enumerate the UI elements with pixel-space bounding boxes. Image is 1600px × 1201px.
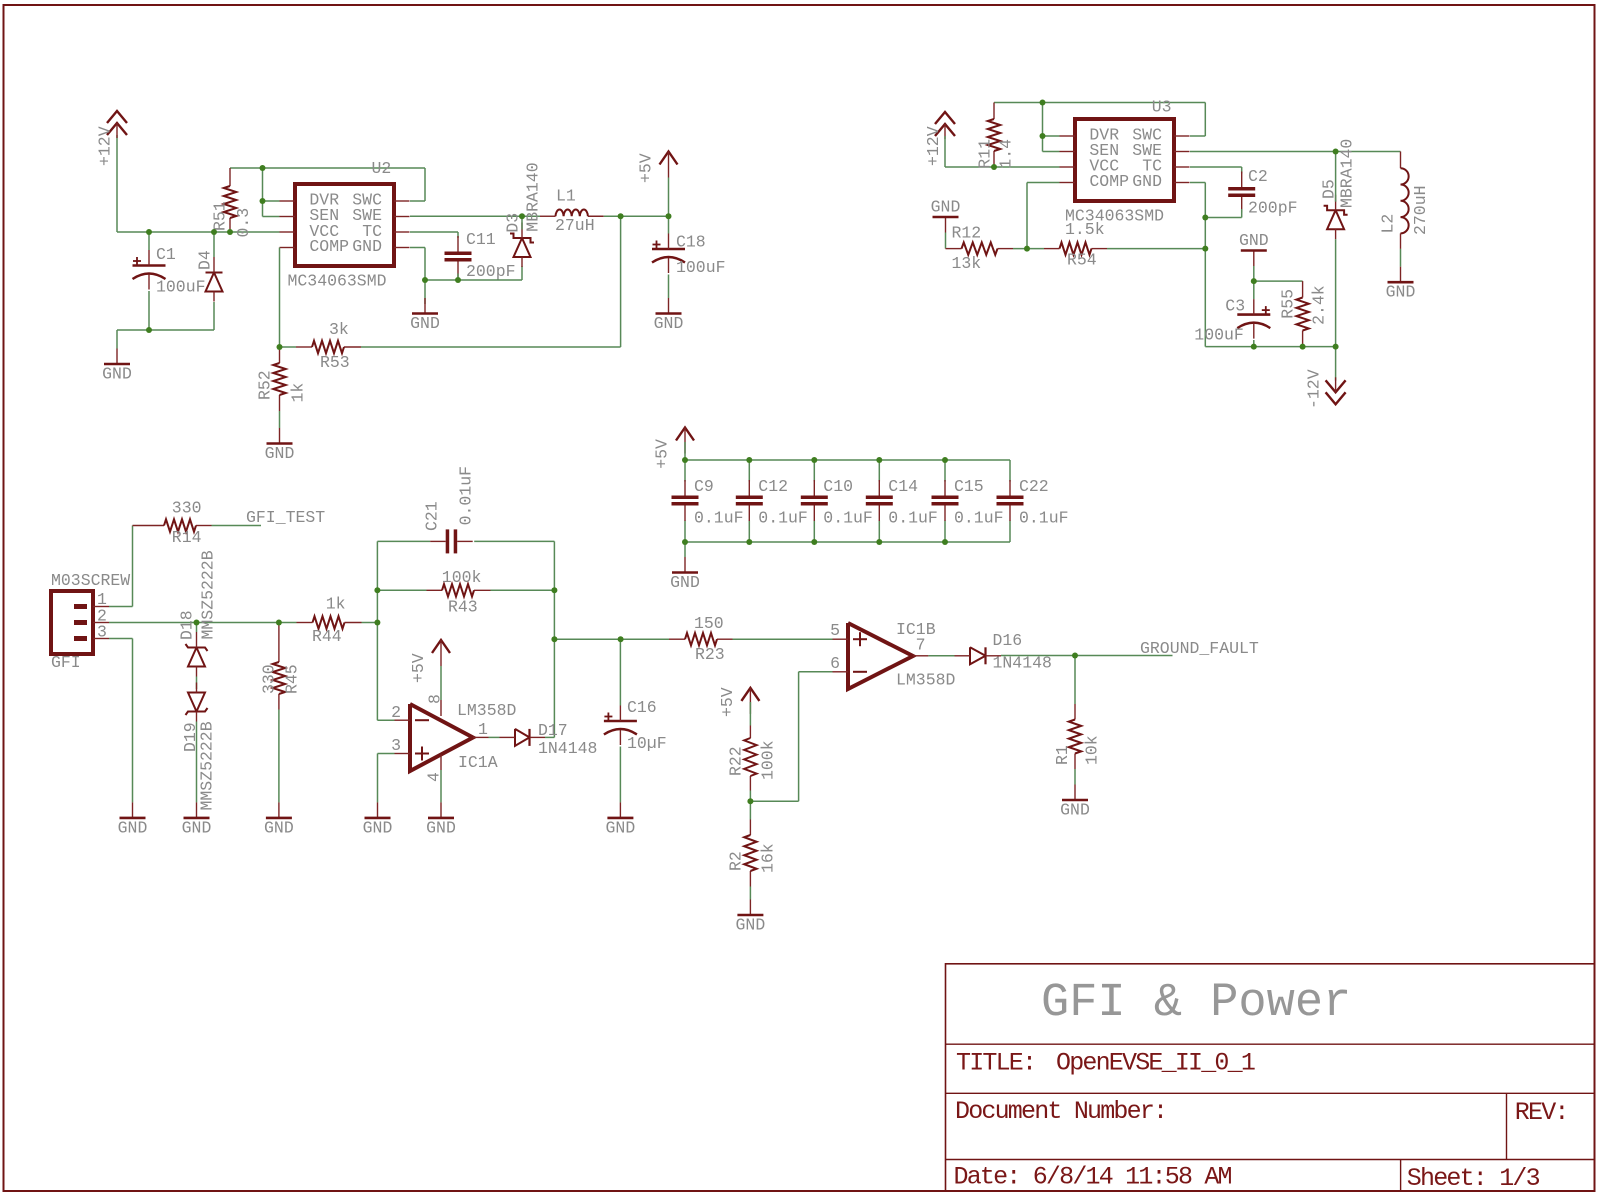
resistor R2 — [744, 820, 756, 887]
svg-text:LM358D: LM358D — [896, 671, 956, 690]
svg-text:0.01uF: 0.01uF — [457, 466, 476, 525]
R1 top wire — [1074, 656, 1076, 705]
resistor R11 — [988, 103, 1000, 168]
svg-text:C2: C2 — [1248, 167, 1268, 186]
R52 to GND wire — [279, 411, 281, 428]
svg-text:5: 5 — [830, 621, 840, 640]
C9 riser wires — [684, 460, 686, 482]
diode D18 — [186, 632, 208, 677]
svg-text:+5V: +5V — [409, 653, 428, 683]
R23 to pin5 wire — [733, 638, 833, 640]
svg-text:TITLE:: TITLE: — [956, 1049, 1035, 1078]
resistor R1 — [1069, 704, 1081, 769]
svg-text:+5V: +5V — [653, 439, 672, 469]
SWC corner wire — [424, 168, 426, 201]
node A vertical wire — [376, 541, 378, 720]
IC U2 box — [295, 184, 394, 266]
svg-text:GND: GND — [931, 198, 961, 217]
svg-text:COMP: COMP — [309, 237, 349, 256]
svg-text:0.1uF: 0.1uF — [694, 509, 744, 528]
svg-text:GND: GND — [1386, 283, 1416, 302]
U2 right pin stubs — [394, 200, 410, 202]
U2 left pin stubs — [280, 200, 296, 202]
C1 wires — [148, 232, 150, 250]
R54 right net wire — [1107, 248, 1205, 250]
svg-text:MBRA140: MBRA140 — [1338, 139, 1357, 208]
D19 wires — [196, 722, 198, 803]
capacitor C22 — [997, 480, 1024, 521]
ground GND under caps — [670, 557, 700, 592]
ground GND under U2 — [410, 298, 440, 333]
SWE net wire — [410, 215, 540, 217]
pin3 net wire — [109, 638, 133, 640]
svg-text:C10: C10 — [823, 477, 853, 496]
svg-text:10µF: 10µF — [627, 734, 667, 753]
+12V right net wire — [944, 136, 946, 167]
COMP net wire — [279, 248, 281, 348]
U3 left pin stubs — [1060, 135, 1076, 137]
op-amp IC1B — [848, 623, 913, 689]
svg-text:R12: R12 — [952, 223, 982, 242]
svg-text:3k: 3k — [329, 320, 349, 339]
ground GND under L2 — [1386, 267, 1416, 302]
svg-text:R14: R14 — [172, 528, 202, 547]
capacitor C14 — [866, 480, 893, 521]
U3 top net wire — [994, 102, 1205, 104]
C12 riser wires — [748, 460, 750, 482]
diode D16 — [955, 647, 1002, 664]
C16 drop wire — [619, 639, 621, 705]
R43 wires — [377, 589, 426, 591]
IC1B output wire — [928, 655, 954, 657]
R2 top wire — [749, 801, 751, 819]
+5V supply P+5V (R22) — [741, 688, 759, 714]
svg-text:C3: C3 — [1225, 296, 1245, 315]
caps gnd rail wire — [685, 541, 1010, 543]
diode D4 — [206, 257, 223, 302]
IC1A minus input wire — [377, 719, 394, 721]
svg-text:C16: C16 — [627, 698, 657, 717]
svg-text:0.1uF: 0.1uF — [888, 509, 938, 528]
svg-text:C21: C21 — [423, 501, 442, 531]
ground GND under R52 — [265, 428, 295, 463]
svg-text:0.1uF: 0.1uF — [1019, 509, 1069, 528]
ground GND for IC1A plus — [363, 802, 393, 837]
svg-text:MMSZ5222B: MMSZ5222B — [199, 550, 218, 639]
svg-text:+12V: +12V — [924, 126, 943, 166]
capacitor C12 — [736, 480, 763, 521]
svg-text:U2: U2 — [372, 159, 392, 178]
TC right net wire — [1190, 166, 1242, 168]
svg-text:R53: R53 — [320, 353, 350, 372]
C18 wires — [668, 216, 670, 233]
+5V supply P+5V (U2 out) — [660, 152, 678, 178]
caps +5V rail wire — [684, 442, 686, 460]
ground GND under D19 — [182, 802, 212, 837]
svg-text:L1: L1 — [556, 187, 576, 206]
C10 riser wires — [813, 460, 815, 482]
IC1A pin stubs — [395, 719, 411, 721]
svg-text:GROUND_FAULT: GROUND_FAULT — [1140, 639, 1259, 658]
D3 wires — [521, 216, 523, 229]
U2 GND pin wire — [410, 247, 425, 249]
diode D17 — [500, 729, 546, 746]
svg-text:GND: GND — [352, 237, 382, 256]
svg-text:1N4148: 1N4148 — [538, 739, 597, 758]
C15 riser wires — [944, 460, 946, 482]
svg-text:MMSZ5222B: MMSZ5222B — [198, 721, 217, 810]
svg-text:100uF: 100uF — [156, 277, 206, 296]
SWE right net wire — [1190, 151, 1401, 153]
diode D3 — [510, 223, 534, 268]
GFI_TEST net wire — [212, 525, 262, 527]
svg-text:C11: C11 — [466, 230, 496, 249]
svg-text:COMP: COMP — [1089, 172, 1129, 191]
svg-text:R11: R11 — [976, 139, 995, 169]
svg-text:R23: R23 — [695, 645, 725, 664]
svg-text:+5V: +5V — [637, 153, 656, 183]
svg-text:R51: R51 — [211, 201, 230, 231]
svg-text:330: 330 — [172, 499, 202, 518]
svg-text:1.4: 1.4 — [997, 139, 1016, 169]
svg-text:R52: R52 — [256, 370, 275, 400]
svg-text:GND: GND — [410, 314, 440, 333]
GND net wire — [425, 279, 522, 281]
svg-text:GND: GND — [182, 818, 212, 837]
svg-text:330: 330 — [260, 664, 279, 694]
inductor L1 — [540, 215, 556, 217]
svg-text:C18: C18 — [676, 232, 706, 251]
svg-text:LM358D: LM358D — [457, 701, 517, 720]
svg-text:D5: D5 — [1319, 179, 1338, 199]
-12V rail wire — [1205, 346, 1335, 348]
svg-text:100uF: 100uF — [676, 258, 726, 277]
svg-text:R45: R45 — [283, 664, 302, 694]
svg-text:C1: C1 — [156, 245, 176, 264]
svg-text:GND: GND — [426, 818, 456, 837]
svg-text:10k: 10k — [1083, 735, 1102, 765]
svg-text:200pF: 200pF — [1248, 199, 1298, 218]
C21 right net wire — [474, 540, 554, 542]
R2 gnd wire — [749, 887, 751, 900]
svg-text:1: 1 — [478, 720, 488, 739]
svg-text:D16: D16 — [993, 631, 1023, 650]
svg-text:GND: GND — [118, 818, 148, 837]
capacitor C15 — [932, 480, 959, 521]
C16 gnd wire — [619, 747, 621, 803]
IC1B pin stubs — [833, 638, 849, 640]
feedback net wire — [280, 346, 297, 348]
svg-text:150: 150 — [694, 614, 724, 633]
D18 wires — [196, 623, 198, 633]
IC1A output wire — [489, 736, 500, 738]
IC1B minus wire — [799, 671, 833, 673]
svg-text:3: 3 — [97, 623, 107, 642]
C3 wires — [1253, 281, 1255, 299]
svg-text:GND: GND — [1239, 231, 1269, 250]
ground GND pin3 — [118, 802, 148, 837]
diode D5 — [1324, 195, 1348, 240]
R12-R54 net wire — [1013, 248, 1044, 250]
svg-text:R22: R22 — [727, 746, 746, 776]
svg-text:0.1uF: 0.1uF — [758, 509, 808, 528]
ground GND under C1 — [102, 349, 132, 384]
connector J-GFI box — [51, 591, 93, 654]
svg-text:OpenEVSE_II_0_1: OpenEVSE_II_0_1 — [1056, 1049, 1255, 1078]
capacitor C9 — [672, 480, 699, 521]
svg-text:U3: U3 — [1152, 97, 1172, 116]
svg-text:Date: 6/8/14 11:58 AM: Date: 6/8/14 11:58 AM — [954, 1163, 1232, 1192]
R23 node row wire — [554, 638, 669, 640]
resistor R53 — [296, 341, 361, 353]
diode D19 — [186, 683, 208, 722]
+5V supply P+5V (caps row) — [676, 428, 694, 454]
svg-text:M03SCREW: M03SCREW — [51, 571, 130, 590]
feedback right vertical wire — [553, 541, 555, 737]
svg-text:IC1B: IC1B — [896, 620, 936, 639]
svg-text:3: 3 — [391, 736, 401, 755]
svg-text:C9: C9 — [694, 477, 714, 496]
capacitor C1 — [133, 250, 166, 290]
ground GND above C3 — [1239, 231, 1269, 266]
connector pin bars — [74, 604, 87, 609]
svg-text:GFI_TEST: GFI_TEST — [246, 508, 325, 527]
C14 riser wires — [878, 460, 880, 482]
ground GND under R2 — [736, 900, 766, 935]
+12V supply P+12V (left) — [107, 111, 127, 138]
capacitor C21 — [430, 529, 473, 553]
ground GND under R1 — [1060, 785, 1090, 820]
svg-text:IC1A: IC1A — [458, 753, 498, 772]
svg-text:R1: R1 — [1053, 745, 1072, 765]
svg-text:13k: 13k — [952, 254, 982, 273]
svg-text:1.5k: 1.5k — [1065, 220, 1105, 239]
pin2 net wire — [109, 622, 297, 624]
resistor R52 — [273, 347, 285, 411]
svg-text:1N4148: 1N4148 — [993, 654, 1052, 673]
op-amp IC1A — [410, 704, 473, 771]
resistor R51 — [224, 168, 236, 232]
ground GND pin4 — [426, 802, 456, 837]
resistor R14 — [133, 519, 212, 531]
COMP right net wire — [1027, 182, 1060, 184]
svg-text:MC34063SMD: MC34063SMD — [288, 272, 387, 291]
D17 cathode wire — [545, 736, 554, 738]
R12 gnd wire — [945, 233, 947, 249]
svg-text:8: 8 — [426, 694, 445, 704]
svg-text:R2: R2 — [727, 851, 746, 871]
svg-text:+12V: +12V — [96, 126, 115, 166]
R22 bottom wire — [749, 791, 751, 802]
svg-text:R44: R44 — [312, 627, 342, 646]
IC1A pin8 wire — [440, 666, 442, 700]
C2 bottom wire — [1241, 209, 1243, 218]
svg-text:R43: R43 — [448, 598, 478, 617]
svg-text:C12: C12 — [758, 477, 788, 496]
svg-text:270uH: 270uH — [1411, 185, 1430, 235]
resistor R54 — [1044, 242, 1107, 254]
svg-text:GND: GND — [1060, 801, 1090, 820]
U3 right pin stubs — [1174, 135, 1190, 137]
svg-text:1k: 1k — [289, 383, 308, 403]
IC1A pin4 wire — [440, 755, 442, 771]
svg-text:REV:: REV: — [1515, 1098, 1568, 1127]
C11 bottom wire — [457, 274, 459, 281]
svg-text:R55: R55 — [1279, 289, 1298, 319]
TC net wire — [410, 231, 458, 233]
svg-text:C15: C15 — [954, 477, 984, 496]
+5V wire (U2 out) — [668, 178, 670, 217]
resistor R43 — [427, 584, 491, 596]
U2 top net wire — [230, 167, 425, 169]
svg-text:D4: D4 — [196, 250, 215, 270]
svg-text:Document Number:: Document Number: — [955, 1097, 1166, 1126]
U3 GND pin net wire — [1190, 182, 1205, 184]
-12V net wire — [1335, 347, 1337, 381]
capacitor C18 — [652, 234, 685, 274]
C1 bottom net wire — [117, 329, 214, 331]
L1 output net wire — [604, 215, 669, 217]
svg-text:1k: 1k — [326, 595, 346, 614]
capacitor C3 — [1237, 299, 1270, 339]
svg-text:2.4k: 2.4k — [1310, 285, 1329, 325]
svg-text:R54: R54 — [1067, 250, 1097, 269]
+12V net wire — [116, 135, 118, 232]
U3 SWC corner wire — [1204, 103, 1206, 137]
svg-text:100k: 100k — [759, 740, 778, 780]
svg-text:GFI: GFI — [51, 653, 81, 672]
GROUND_FAULT net wire — [1001, 655, 1173, 657]
C21 net wire — [377, 540, 430, 542]
-12V supply P-12V — [1326, 377, 1346, 404]
svg-text:GND: GND — [363, 818, 393, 837]
connector pin stubs — [93, 606, 109, 608]
IC U3 box — [1075, 119, 1174, 201]
L2 gnd wire — [1400, 249, 1402, 267]
svg-text:GND: GND — [606, 818, 636, 837]
resistor R23 — [669, 633, 733, 645]
svg-text:Sheet: 1/3: Sheet: 1/3 — [1407, 1164, 1540, 1193]
ground GND under C16 — [606, 802, 636, 837]
resistor R44 — [297, 616, 362, 628]
R45 gnd wire — [278, 710, 280, 803]
svg-text:GND: GND — [264, 818, 294, 837]
ground GND above R12 — [931, 198, 961, 233]
svg-text:MBRA140: MBRA140 — [524, 162, 543, 231]
D4 wires — [213, 232, 215, 257]
svg-text:0.1uF: 0.1uF — [954, 509, 1004, 528]
svg-text:0.1uF: 0.1uF — [823, 509, 873, 528]
capacitor C10 — [801, 480, 828, 521]
resistor R22 — [744, 726, 756, 791]
svg-text:GND: GND — [736, 916, 766, 935]
capacitor C2 — [1228, 172, 1255, 213]
resistor R45 — [273, 623, 285, 710]
svg-text:GND: GND — [102, 365, 132, 384]
+5V supply P+5V (IC1A) — [432, 640, 450, 666]
svg-text:100uF: 100uF — [1194, 325, 1244, 344]
resistor R12 — [946, 242, 1014, 254]
svg-text:L2: L2 — [1379, 214, 1398, 234]
inductor L2 — [1400, 152, 1402, 169]
svg-text:GND: GND — [670, 573, 700, 592]
resistor R55 — [1296, 281, 1308, 347]
capacitor C11 — [445, 236, 472, 277]
IC1A plus input wire — [378, 753, 395, 755]
svg-text:C14: C14 — [888, 477, 918, 496]
D5 wires — [1335, 152, 1337, 202]
ground GND under R45 — [264, 802, 294, 837]
svg-text:100k: 100k — [442, 568, 482, 587]
C3 gnd wire — [1253, 266, 1255, 281]
capacitor C16 — [604, 706, 637, 746]
svg-text:16k: 16k — [759, 843, 778, 873]
title block frame — [946, 964, 1596, 1191]
+12V supply P+12V (right) — [935, 112, 955, 139]
svg-text:27uH: 27uH — [555, 216, 595, 235]
R1 gnd wire — [1074, 769, 1076, 785]
svg-text:D18: D18 — [178, 610, 197, 640]
svg-text:0.3: 0.3 — [234, 208, 253, 238]
svg-text:C22: C22 — [1019, 477, 1049, 496]
svg-text:GFI & Power: GFI & Power — [1041, 977, 1351, 1030]
svg-text:+5V: +5V — [718, 687, 737, 717]
svg-text:2: 2 — [391, 703, 401, 722]
svg-text:GND: GND — [1132, 172, 1162, 191]
ground GND under C18 — [654, 298, 684, 333]
svg-text:-12V: -12V — [1305, 369, 1324, 409]
pin1 net wire — [109, 606, 133, 608]
svg-text:200pF: 200pF — [466, 262, 516, 281]
svg-text:GND: GND — [265, 444, 295, 463]
svg-text:6: 6 — [830, 654, 840, 673]
R22 top wire — [749, 702, 751, 726]
R44 right net wire — [362, 622, 378, 624]
svg-text:GND: GND — [654, 314, 684, 333]
